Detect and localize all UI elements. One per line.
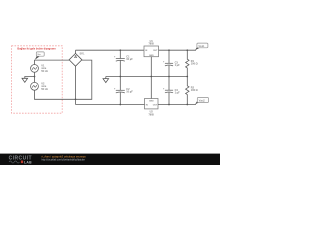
svg-text:10 µF: 10 µF xyxy=(126,91,133,94)
net flag Vout2 tail xyxy=(195,102,200,105)
svg-text:GND: GND xyxy=(149,55,154,57)
junction dot C1 top xyxy=(119,49,121,51)
wire top rail right xyxy=(159,49,197,51)
svg-text:7905: 7905 xyxy=(149,113,155,116)
wire AC1 (V1 top to bridge left) xyxy=(35,60,70,64)
svg-text:ri_Aars / quiaqmk3 cebubaya ze: ri_Aars / quiaqmk3 cebubaya zeynepa xyxy=(42,154,87,158)
ground 2 stub xyxy=(105,77,107,79)
voltage source V1 xyxy=(31,65,39,73)
annotation red dashed box xyxy=(12,46,63,113)
regulator U1 7805 xyxy=(144,46,159,57)
junction dot R2 bottom xyxy=(186,104,188,106)
wire U2 GND xyxy=(150,77,152,99)
svg-text:1 µF: 1 µF xyxy=(175,92,181,95)
svg-text:7805: 7805 xyxy=(149,42,155,45)
footer bar xyxy=(0,154,220,165)
junction dot C2 top xyxy=(119,76,121,78)
svg-text:BR1: BR1 xyxy=(80,53,85,56)
svg-text:Vout2: Vout2 xyxy=(199,99,206,102)
svg-text:100 Ω: 100 Ω xyxy=(191,89,198,92)
net flag VAC tail xyxy=(35,56,40,60)
net flag VAC box xyxy=(36,52,44,56)
svg-text:Vout1: Vout1 xyxy=(198,45,205,48)
ground 1 xyxy=(22,78,28,82)
voltage source V2 xyxy=(31,82,39,90)
svg-text:http://circuitlab.com/c6wrkaeb: http://circuitlab.com/c6wrkaebdkfyd/datu… xyxy=(42,158,86,161)
svg-text:GND: GND xyxy=(149,101,154,103)
capacitor C3 xyxy=(168,50,170,63)
net flag Vout1 box xyxy=(197,43,208,48)
junction dot C4 top xyxy=(168,76,170,78)
junction dot at crossing xyxy=(75,98,77,100)
wire bottom rail right xyxy=(158,104,196,106)
junction dot R2 top xyxy=(186,76,188,78)
junction dot center tap xyxy=(34,76,36,78)
svg-text:LAB: LAB xyxy=(24,160,32,164)
capacitor C4 xyxy=(168,77,170,91)
junction dot U2 gnd xyxy=(150,76,152,78)
svg-text:1 µF: 1 µF xyxy=(175,64,181,67)
junction dot C4 bottom xyxy=(168,104,170,106)
wire AC2 (V2 bottom to bridge right) xyxy=(35,60,92,99)
regulator U2 7905 xyxy=(145,99,159,109)
net flag Vout1 tail xyxy=(195,48,200,51)
wire top rail left xyxy=(76,49,145,51)
svg-text:OUT: OUT xyxy=(153,105,158,107)
capacitor C2 xyxy=(119,77,121,91)
junction dot C2 bottom xyxy=(119,104,121,106)
ground 2 xyxy=(103,79,109,83)
bridge rectifier BR1 xyxy=(69,53,82,66)
wire bottom rail left xyxy=(76,104,145,106)
junction dot C3 top xyxy=(168,49,170,51)
resistor R2 xyxy=(186,77,189,105)
svg-text:OUT: OUT xyxy=(153,50,158,52)
wire bridge bottom output xyxy=(75,66,77,104)
svg-text:50 Hz: 50 Hz xyxy=(41,88,48,91)
svg-text:100 Ω: 100 Ω xyxy=(191,63,198,66)
wire V1 bottom to V2 top xyxy=(34,72,36,82)
svg-text:50 Hz: 50 Hz xyxy=(41,70,48,73)
svg-text:Bağlan iki gale bobin diyagram: Bağlan iki gale bobin diyagramı xyxy=(17,47,56,51)
capacitor C1 xyxy=(119,50,121,58)
wire to ground 1 xyxy=(25,77,35,79)
resistor R1 xyxy=(186,50,189,76)
wire U1 GND xyxy=(150,57,152,77)
junction dot R1 top xyxy=(186,49,188,51)
ground rail xyxy=(106,76,188,78)
svg-text:10 µF: 10 µF xyxy=(126,58,133,61)
wire bridge top to rail xyxy=(75,50,77,53)
net flag Vout2 box xyxy=(197,98,208,103)
